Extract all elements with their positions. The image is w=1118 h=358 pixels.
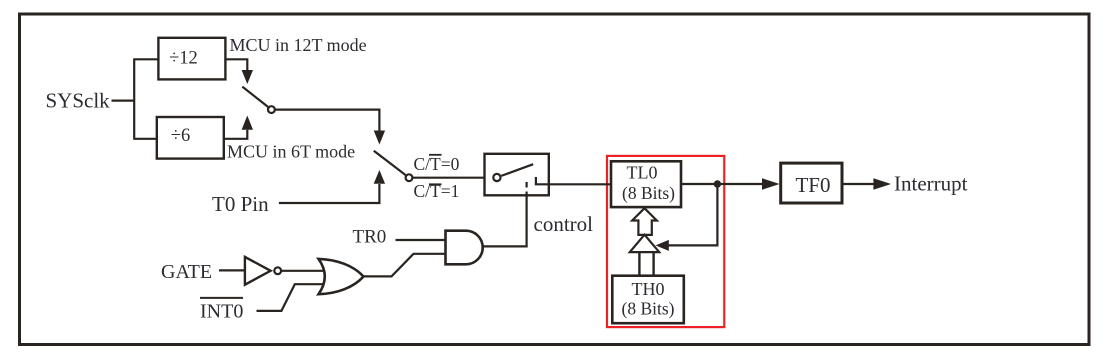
control switch blade <box>501 164 533 176</box>
svg-text:T0 Pin: T0 Pin <box>212 192 269 216</box>
svg-text:(8 Bits): (8 Bits) <box>622 183 675 203</box>
wire GATE to inverter <box>219 269 245 271</box>
svg-text:÷6: ÷6 <box>171 126 190 146</box>
switch S1 pivot <box>268 106 275 113</box>
wire T0 Pin up to switch S2 with arrow <box>279 170 385 203</box>
wire S2 to control box <box>413 177 485 179</box>
wire OR output to AND gate <box>364 254 446 277</box>
svg-text:TF0: TF0 <box>795 173 830 197</box>
wire INT0 to OR gate <box>257 284 324 311</box>
reload triangle lower <box>630 235 659 252</box>
shaft TH0 to reload triangle <box>639 252 653 276</box>
AND gate U3 <box>446 231 483 265</box>
divider box /12 <box>158 38 225 80</box>
reload block arrow upper (into TL0) <box>632 208 657 235</box>
svg-text:C/T=0: C/T=0 <box>414 154 460 174</box>
svg-text:SYSclk: SYSclk <box>46 89 111 113</box>
wire TF0 to Interrupt with arrow <box>842 178 891 190</box>
register TH0 (8 Bits) <box>612 276 684 324</box>
svg-text:÷12: ÷12 <box>169 49 198 69</box>
inverter U1 bubble <box>274 267 281 274</box>
switch S2 pivot <box>406 174 413 181</box>
label C/T=0 <box>414 154 460 174</box>
node INT0 (active low) <box>200 298 243 323</box>
wire splitter branch to dividers <box>133 59 158 139</box>
wire TL0 output to TF0 with arrow <box>681 178 780 190</box>
feedback wire to reload triangle with left arrow <box>656 184 718 251</box>
junction dot <box>714 180 721 187</box>
svg-text:INT0: INT0 <box>200 301 243 323</box>
wire AND output to control switch <box>483 196 527 247</box>
wire SYSclk to splitter <box>112 99 135 101</box>
svg-text:control: control <box>534 212 594 236</box>
wire /6 output up to switch S1 with arrow <box>224 116 253 139</box>
switch S2 blade <box>374 151 406 175</box>
wire S1 to switch S2 with down arrow <box>275 110 385 145</box>
svg-text:(8 Bits): (8 Bits) <box>622 299 675 319</box>
svg-text:TH0: TH0 <box>632 279 665 299</box>
svg-text:Interrupt: Interrupt <box>894 172 968 196</box>
label C/T=1 <box>414 181 460 201</box>
control switch box <box>485 154 549 196</box>
svg-text:MCU in 12T mode: MCU in 12T mode <box>230 35 367 55</box>
svg-text:GATE: GATE <box>161 261 212 283</box>
switch S1 blade <box>242 87 268 107</box>
inverter U1 triangle <box>245 257 271 285</box>
highlight box (red) around TL0/TH0 <box>607 156 724 327</box>
register TL0 (8 Bits) <box>611 161 681 207</box>
control switch contact and wire to TL0 <box>536 177 611 184</box>
wire inverter to OR gate <box>282 270 324 272</box>
wire /12 output down to switch S1 with arrow <box>225 59 253 84</box>
OR gate U2 <box>319 259 364 294</box>
divider box /6 <box>157 117 224 159</box>
svg-text:TR0: TR0 <box>353 227 387 248</box>
flag box TF0 <box>781 163 842 203</box>
svg-text:TL0: TL0 <box>627 163 658 183</box>
svg-text:MCU in 6T mode: MCU in 6T mode <box>227 142 355 162</box>
control switch pivot <box>493 174 500 181</box>
control actuation dashed link <box>525 182 527 199</box>
wire TR0 to AND gate <box>396 239 446 241</box>
